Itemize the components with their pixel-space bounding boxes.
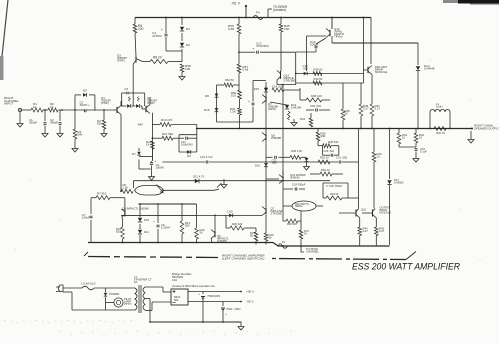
svg-text:+36 V: +36 V	[246, 290, 255, 294]
svg-text:D7: D7	[132, 152, 136, 156]
resistor R52 10 on zener line	[318, 156, 330, 165]
svg-text:100: 100	[138, 27, 144, 31]
transistor Q14 ripple filter	[277, 71, 295, 85]
svg-text:390: 390	[321, 134, 326, 138]
svg-text:R10 270: R10 270	[161, 118, 173, 122]
svg-text:SPEAKER OUTPUT: SPEAKER OUTPUT	[474, 127, 499, 131]
title: ESS 200 WATT AMPLIFIER	[352, 261, 460, 272]
wire: secondary center tap	[145, 299, 150, 323]
wire: supply ground rail	[150, 321, 241, 323]
wire: vertical chain x266	[265, 82, 267, 203]
svg-text:1.2K: 1.2K	[123, 185, 129, 189]
resistor R51 220	[283, 183, 301, 227]
svg-text:-64V: -64V	[137, 123, 143, 127]
feedback loop with diode D5	[75, 89, 95, 111]
svg-text:R28 540: R28 540	[328, 140, 339, 144]
resistor R57 0.68	[237, 52, 248, 90]
text: right channel input	[4, 96, 19, 106]
wire: top-right feed to D13	[332, 36, 418, 43]
wire: -36V output line	[188, 300, 254, 304]
resistor R5 100 with vertical wire at x135	[133, 18, 143, 34]
svg-text:4N/TD +: 4N/TD +	[80, 103, 91, 107]
transistor Q9 output driver	[364, 64, 388, 75]
resistor R15 820 vertical	[116, 218, 124, 243]
text: bridge rectifier note	[172, 272, 215, 288]
svg-text:100: 100	[185, 67, 190, 71]
resistor R48 1.2K	[290, 149, 307, 160]
svg-text:1N4448: 1N4448	[424, 67, 435, 71]
capacitor C16 7500uF/100V	[198, 292, 220, 323]
wire: Q6 emitter to rail	[211, 238, 213, 243]
svg-text:2N5088: 2N5088	[271, 136, 281, 140]
wire: upper VAS line y73.5	[296, 73, 364, 75]
wire: plug to fuse	[63, 287, 82, 289]
svg-text:INPUT: INPUT	[4, 102, 13, 106]
resistor R46 50 vertical	[341, 83, 350, 129]
transistor Q13 center regulator	[326, 18, 344, 39]
fuse F4 on rail	[253, 11, 263, 20]
svg-text:D16: D16	[255, 164, 260, 168]
clamp network box above D3 D4	[122, 87, 145, 106]
AC plug	[56, 285, 63, 292]
ground at speaker return	[468, 131, 474, 143]
diode D7 loop	[132, 148, 152, 169]
diode D9	[204, 108, 218, 112]
wire: Q14 emitter line	[277, 84, 296, 86]
svg-text:5A: 5A	[134, 280, 138, 284]
svg-text:R34: R34	[300, 117, 305, 121]
svg-text:390pF: 390pF	[50, 121, 58, 125]
diode D2	[180, 33, 190, 62]
svg-text:100/6V: 100/6V	[156, 165, 165, 169]
wire: C4 to D2 junction	[166, 50, 182, 52]
ground symbol power supply	[238, 322, 244, 331]
svg-text:(hookup of MDA 990-3 equivalen: (hookup of MDA 990-3 equivalent ok)	[172, 284, 215, 288]
svg-text:100uF/6V: 100uF/6V	[181, 142, 193, 146]
svg-text:D15: D15	[254, 87, 260, 91]
resistor R36 100	[300, 88, 330, 102]
svg-text:ESS 200 WATT AMPLIFIER: ESS 200 WATT AMPLIFIER	[352, 261, 460, 272]
capacitor C31 .005 on zener line	[336, 156, 348, 164]
svg-text:C14 .002: C14 .002	[272, 85, 284, 89]
diode D6 on box bottom	[179, 150, 197, 158]
capacitor C8 6.25uF	[153, 204, 170, 243]
ground below R58	[179, 72, 185, 80]
wire: +52 node corner down	[295, 52, 297, 84]
resistor R13 560 vertical	[180, 204, 190, 243]
diode D3	[121, 104, 131, 108]
svg-text:C31 .005: C31 .005	[336, 156, 348, 160]
svg-text:C6: C6	[125, 87, 129, 91]
resistor R6 1.2K horizontal	[121, 183, 133, 193]
capacitor C30 .002	[306, 104, 330, 112]
wire: oval output to Q5 wedge	[164, 189, 220, 190]
svg-text:F2: F2	[282, 240, 286, 244]
svg-text:R39 50: R39 50	[314, 77, 323, 81]
svg-text:56: 56	[269, 235, 273, 239]
diode D11	[138, 224, 149, 243]
resistor R49 56 vertical	[264, 215, 274, 245]
bias network box top edge with resistor R62 50	[217, 78, 240, 87]
diode D13	[416, 43, 435, 128]
svg-text:C24 390pF: C24 390pF	[292, 183, 306, 187]
wire: snubber box bottom to Q10 collector column	[348, 197, 359, 199]
capacitor C2 390pF to ground	[50, 110, 63, 137]
svg-text:C30 .002: C30 .002	[310, 104, 322, 108]
resistor R33 diagonal to ground	[288, 111, 298, 126]
wire: long mid rail (output feedback rail)	[197, 128, 472, 130]
svg-text:C29 .002: C29 .002	[324, 149, 335, 153]
svg-text:1K: 1K	[304, 231, 308, 235]
transistor Q12	[266, 170, 306, 207]
wire: Q14 chain down to Q12	[282, 85, 284, 176]
resistor R60 100 on x239 leg	[231, 90, 241, 108]
svg-text:10: 10	[419, 135, 423, 139]
fuse F2 on negative rail	[278, 240, 288, 248]
resistor R65 150	[279, 18, 290, 72]
resistor R26 220	[226, 215, 256, 230]
resistor R43 10 below rail	[397, 129, 416, 148]
wire: Q13 base line	[307, 36, 327, 71]
capacitor C31 4.7uF on upper line	[200, 155, 213, 164]
resistor R1 1K	[31, 102, 43, 112]
diode D16 on chain	[255, 163, 268, 167]
svg-text:100uF: 100uF	[310, 43, 319, 47]
ground at input terminal	[17, 112, 23, 127]
wire: R10 corner down to rail junction	[196, 125, 198, 153]
svg-text:-36 V: -36 V	[246, 300, 254, 304]
svg-text:D11: D11	[144, 230, 149, 234]
wire: secondary top to bridge	[145, 287, 171, 292]
svg-text:50: 50	[345, 112, 349, 116]
resistor R3 56K to ground	[72, 111, 83, 152]
svg-text:Q4 IMPNCTL 2N5088: Q4 IMPNCTL 2N5088	[122, 207, 149, 211]
svg-text:(PNP): (PNP)	[101, 101, 109, 105]
node +51V supply terminal	[231, 2, 247, 18]
bias network box bottom edge	[217, 121, 254, 123]
resistor R58 100	[180, 64, 191, 72]
svg-text:6.25/6V: 6.25/6V	[161, 225, 171, 229]
resistor R12 1K vertical	[146, 140, 154, 161]
transistor Q5 wedge and ground	[217, 179, 227, 188]
svg-text:10: 10	[402, 135, 406, 139]
inductor L1 10uH with parallel resistor R30	[430, 102, 450, 135]
diode D1	[180, 18, 190, 32]
resistor R47 1K vertical	[299, 211, 309, 246]
svg-text:MODULE: MODULE	[375, 70, 387, 74]
capacitor C23 .005 on emitter line	[266, 156, 290, 165]
svg-text:10uH: 10uH	[436, 104, 443, 108]
svg-text:0.1uF: 0.1uF	[420, 149, 427, 153]
transformer T1 primary winding	[135, 288, 137, 310]
svg-text:F4: F4	[256, 11, 260, 15]
svg-text:D10: D10	[144, 218, 149, 222]
svg-text:1K: 1K	[33, 105, 37, 109]
wire: lower block line B with Q4	[121, 204, 197, 228]
diode D18 to ground	[304, 158, 310, 170]
svg-text:(PNP): (PNP)	[117, 59, 125, 63]
resistor R44 0.27	[358, 218, 368, 246]
svg-text:R30 10: R30 10	[436, 131, 445, 135]
svg-text:82: 82	[250, 233, 254, 237]
svg-text:(breaker): (breaker)	[273, 8, 286, 12]
scan artifact: left page edge diagonal	[0, 0, 8, 80]
svg-text:D12 4.7V: D12 4.7V	[193, 175, 205, 179]
bias network box left leg	[216, 85, 218, 122]
svg-text:1K: 1K	[50, 105, 54, 109]
diode D12b on lower line	[193, 175, 205, 184]
resistor R14 100 horizontal top	[272, 85, 300, 93]
svg-text:R48 1.2K: R48 1.2K	[291, 149, 303, 153]
dual diode oval Q5	[135, 185, 164, 196]
capacitor C12 47uF/50V on +52V node	[239, 42, 296, 54]
svg-text:1N4002: 1N4002	[394, 180, 404, 184]
paper speckles	[5, 60, 481, 336]
wire: +36V output line	[188, 290, 255, 294]
wire: long zener line upper	[163, 161, 359, 163]
resistor R42 10 and C15 to ground	[413, 129, 427, 163]
svg-text:(LEFT CHANNEL IDENTICAL): (LEFT CHANNEL IDENTICAL)	[222, 256, 264, 260]
wire: driver emitter down	[371, 75, 373, 105]
transistor Q8 VAS	[262, 133, 281, 142]
transformer T1 secondary winding	[143, 287, 145, 310]
svg-text:+: +	[155, 160, 157, 164]
resistor R8 20 on Q3 base line	[143, 56, 183, 64]
diode D15 at Q7 collector	[254, 86, 268, 92]
svg-text:D6: D6	[187, 154, 191, 158]
svg-text:R11 560: R11 560	[162, 132, 173, 136]
svg-text:STROBE: STROBE	[284, 79, 296, 83]
svg-text:(NPN): (NPN)	[268, 107, 276, 111]
transistor Q10 output	[339, 129, 367, 218]
svg-text:R38 50: R38 50	[314, 68, 323, 72]
svg-text:STROBE: STROBE	[271, 211, 282, 215]
resistor R2 1K	[48, 102, 58, 112]
wire: Q2 collector node to R10 line	[152, 124, 160, 126]
svg-text:D1: D1	[186, 27, 190, 31]
wire: Q1 collector down	[120, 101, 122, 127]
svg-text:+: +	[248, 100, 250, 104]
svg-text:0.27: 0.27	[375, 107, 381, 111]
resistor R27 82 vertical	[250, 228, 258, 245]
wire: line B extension to Q7	[197, 214, 263, 216]
svg-text:C 'C25 750pF': C 'C25 750pF'	[326, 184, 343, 188]
wire: link y181 line down to oval	[132, 181, 134, 188]
svg-text:C31 4.7uF: C31 4.7uF	[200, 155, 213, 159]
svg-text:CHANNEL: CHANNEL	[306, 249, 319, 253]
wire: C14 top to VAS chain	[253, 80, 266, 82]
resistor R4 62K to ground	[97, 110, 107, 137]
resistor R56 0.68	[228, 18, 241, 53]
svg-text:R26 220: R26 220	[287, 222, 297, 226]
capacitor C5 on input line	[80, 101, 91, 113]
svg-text:0.27: 0.27	[363, 229, 369, 233]
resistor R39 50 on y83 line	[313, 77, 323, 85]
svg-text:10: 10	[377, 154, 381, 158]
svg-text:+51 V: +51 V	[231, 2, 241, 6]
wire: secondary bottom to bridge	[145, 302, 171, 311]
svg-text:D5: D5	[83, 89, 87, 93]
resistor R37 0.27	[370, 104, 380, 129]
node: speaker output terminal	[471, 124, 499, 131]
transistor Q7 pre-driver	[262, 95, 278, 112]
fuse F1 1.5A SLO	[81, 282, 96, 290]
svg-text:.005: .005	[272, 161, 278, 165]
svg-text:100uF: 100uF	[82, 215, 90, 219]
svg-text:7500/100V: 7500/100V	[207, 294, 220, 298]
capacitor C9 100uF to ground	[149, 160, 165, 181]
bias servo oval Q60	[283, 201, 323, 211]
transistor Q7 impulse strobe	[262, 203, 283, 216]
wire: plug bottom to lower rail	[63, 292, 135, 310]
svg-text:+: +	[225, 312, 227, 316]
transistor Q4	[121, 198, 125, 218]
wire: rail drop x363.5	[363, 18, 365, 84]
svg-text:0.27: 0.27	[363, 107, 369, 111]
wire R1-R2	[43, 109, 48, 111]
resistor R16 56 vertical	[195, 228, 205, 243]
svg-text:47uF/50V: 47uF/50V	[256, 44, 269, 48]
svg-text:D8: D8	[205, 94, 209, 98]
wire: Q12 base from x266 chain	[266, 160, 279, 203]
wire: lower block top line A	[138, 203, 196, 205]
scan artifact: dark bar top right corner	[443, 0, 499, 5]
wire: long zener line lower	[133, 180, 330, 182]
bracket: to left channel	[301, 246, 319, 253]
svg-text:R29 62: R29 62	[330, 192, 339, 196]
wire: rail continuation through fuse	[288, 245, 390, 247]
svg-text:R26 220: R26 220	[232, 222, 243, 226]
svg-text:962: 962	[174, 298, 179, 302]
diode D4	[132, 104, 143, 108]
resistor R54 10 lower	[310, 168, 343, 176]
wire: rail drop x371 to driver	[370, 18, 372, 65]
wire R2 to Q1 base	[58, 109, 113, 111]
resistor R28 540 and C29 box	[318, 140, 339, 157]
capacitor C11 100uF/6V box	[179, 135, 197, 152]
svg-text:D2: D2	[186, 43, 190, 47]
diode D8	[205, 94, 218, 98]
svg-text:SMALL: SMALL	[295, 205, 304, 208]
svg-text:0.68: 0.68	[228, 27, 234, 31]
transistor Q1 2N5087	[101, 96, 121, 115]
diode D14 1N4148	[270, 102, 301, 110]
svg-text:560: 560	[185, 223, 190, 227]
wire: Q2 emitter up / collector down	[137, 97, 150, 127]
svg-text:7500 / 100V: 7500 / 100V	[226, 307, 241, 311]
capacitor C1 390pF to ground	[29, 110, 48, 137]
svg-text:0.68: 0.68	[243, 68, 249, 72]
diode D17 on output leg	[387, 129, 404, 246]
svg-text:(neon): (neon)	[124, 302, 132, 306]
capacitor C17 7500uF/100V	[221, 302, 241, 323]
bridge rectifier box MDA962	[171, 289, 188, 305]
diode D20 power indicator leg	[104, 288, 120, 310]
wire: +V top rail	[135, 17, 371, 19]
svg-text:1.5K: 1.5K	[230, 110, 236, 114]
svg-text:R52 10: R52 10	[320, 156, 329, 160]
wire: input line	[22, 109, 31, 111]
node: input terminal	[18, 108, 21, 111]
capacitor C24 390pF	[283, 183, 306, 191]
svg-text:D10: D10	[204, 108, 210, 112]
resistor R45 0.27	[375, 218, 385, 246]
svg-text:1.5 6A SLO: 1.5 6A SLO	[81, 282, 96, 286]
svg-text:R36 100: R36 100	[311, 94, 322, 98]
separator dashed line right segment	[272, 252, 416, 260]
text: right channel amplifier note	[222, 254, 265, 261]
wire: negative bottom rail	[88, 243, 390, 247]
svg-text:2N5630: 2N5630	[290, 175, 300, 179]
svg-text:47/50V: 47/50V	[152, 34, 163, 38]
resistor R50 390 vertical	[316, 129, 326, 142]
resistor R34 200 vertical	[300, 113, 313, 127]
resistor R40 10 on driver leg	[372, 129, 382, 209]
resistor R11 560 on bias leg	[152, 113, 184, 160]
svg-text:R54 10: R54 10	[321, 168, 330, 172]
separator dashed line left segment	[84, 252, 220, 258]
pilot lamp	[106, 297, 132, 307]
wire: lower VAS line y83	[296, 82, 364, 84]
svg-text:1K: 1K	[146, 143, 150, 147]
node: breaker tap label	[268, 5, 288, 18]
svg-text:100: 100	[231, 94, 236, 98]
capacitor C4 47uF	[152, 18, 168, 52]
svg-text:56: 56	[200, 230, 204, 234]
capacitor C10 100uF	[296, 38, 326, 52]
transistor Q3	[117, 33, 143, 64]
svg-text:.005: .005	[303, 66, 309, 70]
svg-text:56K: 56K	[78, 133, 83, 137]
svg-text:390pF: 390pF	[29, 121, 37, 125]
diode C13 on y73.5 line	[303, 64, 309, 75]
resistor R61 1.5K on x239 leg	[230, 107, 241, 129]
svg-text:0.27: 0.27	[379, 229, 385, 233]
svg-text:D19: D19	[228, 210, 233, 214]
diode D19	[228, 210, 233, 218]
diode D10	[138, 204, 150, 222]
svg-text:(PNP): (PNP)	[147, 101, 155, 105]
transistor Q6	[211, 215, 229, 242]
svg-text:POWER: POWER	[109, 292, 119, 296]
svg-text:+: +	[198, 292, 200, 296]
svg-text:150: 150	[284, 27, 289, 31]
capacitor C14 right leg	[248, 81, 254, 123]
svg-text:R62 50: R62 50	[225, 78, 234, 82]
transistor Q2 2N5087	[142, 96, 157, 114]
svg-text:62K: 62K	[97, 122, 102, 126]
svg-text:1N4148: 1N4148	[291, 106, 301, 110]
svg-text:Q10: Q10	[361, 208, 367, 212]
svg-text:820: 820	[116, 229, 121, 233]
svg-text:R8 20: R8 20	[153, 56, 162, 60]
capacitor C7 100uF on left leg	[82, 198, 93, 243]
svg-text:12A: 12A	[172, 278, 177, 282]
resistor R38 50 on y73.5 line	[313, 68, 323, 76]
svg-text:R7 510: R7 510	[97, 192, 107, 196]
resistor R35 0.27	[359, 83, 369, 129]
wire: Q3 collector down to diode midpoint	[132, 64, 134, 106]
svg-text:+: +	[153, 219, 155, 223]
wire: Q1 tail down to R6 node	[120, 127, 122, 191]
wire: fuse to transformer primary top	[94, 287, 135, 289]
resistor R10 270	[160, 118, 197, 127]
snubber box C25 750pF with R29 62	[323, 183, 348, 200]
resistor R7 510	[91, 192, 125, 200]
svg-text:TIP(N): TIP(N)	[334, 35, 342, 39]
transistor Q11 output	[362, 206, 391, 218]
transformer T1 core	[134, 275, 152, 313]
